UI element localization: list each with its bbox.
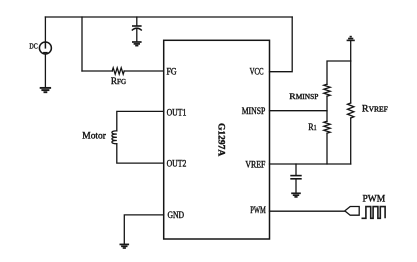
wire R1 to VREF rail (326, 133, 328, 164)
motor inductor coil (112, 131, 117, 144)
svg-text:MINSP: MINSP (242, 106, 266, 116)
wire junction down to RVREF (350, 61, 352, 103)
PWM square wave symbol (362, 207, 386, 219)
power rail symbol (top right) (347, 37, 355, 41)
connector PWM input tag (345, 207, 359, 216)
capacitor C1 drop from rail (136, 17, 138, 25)
wire DC source top (44, 17, 46, 42)
svg-text:OUT2: OUT2 (167, 159, 187, 169)
svg-text:FG: FG (167, 66, 177, 77)
wire top rail (45, 16, 292, 18)
wire RVREF to VREF rail (350, 118, 352, 164)
resistor RFG (112, 68, 124, 74)
wire VREF pin rail (270, 163, 351, 165)
wire GND pin (124, 215, 163, 244)
svg-text:PWM: PWM (250, 205, 266, 215)
ground (under C1) (132, 42, 142, 46)
ground (under C2) (291, 193, 301, 197)
svg-text:RVREF: RVREF (362, 104, 388, 115)
wire C2 to ground (295, 180, 297, 193)
wire PWM pin (270, 210, 345, 212)
svg-text:Motor: Motor (82, 131, 107, 141)
wire FG branch left (82, 70, 112, 72)
wire motor to OUT2 (117, 144, 164, 163)
svg-text:RFG: RFG (111, 77, 127, 87)
capacitor C2 (290, 176, 301, 179)
wire top rail drop to FG branch (81, 17, 83, 71)
op IC U1 G1297A body (164, 40, 270, 239)
wire DC source bottom (44, 54, 46, 87)
wire junction to RMINSP chain (327, 61, 351, 84)
svg-text:OUT1: OUT1 (167, 108, 187, 118)
wire C1 to ground (136, 29, 138, 41)
svg-text:VCC: VCC (250, 67, 264, 77)
ground (under GND pin) (120, 244, 130, 248)
svg-text:GND: GND (168, 211, 185, 221)
resistor RMINSP (324, 84, 330, 96)
svg-text:RMINSP: RMINSP (289, 91, 318, 101)
resistor R1 (324, 121, 330, 133)
wire power to junction (350, 41, 352, 61)
capacitor C2 drop (295, 164, 297, 175)
wire MINSP pin (270, 110, 328, 112)
wire RFG to FG pin (124, 70, 164, 72)
svg-text:G1297A: G1297A (216, 123, 226, 156)
capacitor C1 (132, 26, 142, 31)
svg-text:DC: DC (29, 43, 37, 51)
DC source V1 (39, 42, 51, 54)
ground (under DC source) (40, 88, 51, 92)
wire OUT1 to motor (117, 111, 164, 130)
svg-text:PWM: PWM (363, 194, 386, 204)
resistor RVREF (348, 103, 354, 118)
wire RMINSP to MINSP node (326, 96, 328, 121)
wire VCC pin to rail (270, 17, 293, 72)
svg-text:VREF: VREF (245, 159, 265, 170)
